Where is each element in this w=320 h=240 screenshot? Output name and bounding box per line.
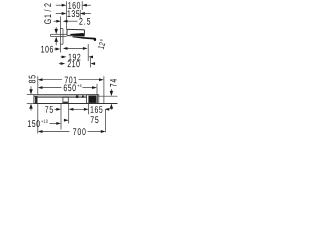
wire: ext line 650 right bbox=[96, 84, 98, 95]
wire: ext line 192 right bbox=[87, 53, 89, 62]
spout body outline bbox=[67, 29, 85, 36]
dim 701 bbox=[38, 76, 104, 83]
wire: bar bottom ext stub left bbox=[27, 103, 34, 105]
wire: extension line 135 right bbox=[79, 10, 81, 18]
pipe G1/2 bbox=[51, 34, 67, 36]
handle dark fill bbox=[88, 96, 96, 103]
label 12 deg bbox=[98, 39, 106, 49]
label G1/2 bbox=[44, 3, 51, 23]
arrow up toward pipe bbox=[54, 37, 58, 46]
dim 2.5 bbox=[54, 18, 91, 25]
wire: ext line left master lower bbox=[37, 104, 39, 134]
dim 106 bbox=[41, 46, 60, 53]
wire: vline wall ref bottom bbox=[60, 104, 62, 130]
dim 150+10 bbox=[28, 120, 61, 127]
wire: bar top ext stub left bbox=[27, 94, 34, 96]
dim line row under spout bbox=[63, 47, 88, 50]
wire: ext line 210 right bbox=[90, 58, 92, 68]
small control mark 2 bbox=[82, 95, 84, 97]
dim 650+4 bbox=[38, 84, 97, 91]
wire: plate front line bbox=[62, 29, 64, 45]
handle outline bbox=[87, 95, 98, 104]
wire: ext line x=88 under blade bbox=[87, 44, 89, 53]
dim 210 bbox=[59, 60, 95, 67]
dim 75 right label bbox=[91, 116, 99, 123]
bar front view outline bbox=[34, 95, 118, 104]
dim 700 bbox=[38, 128, 106, 135]
dim 85 vertical bbox=[29, 75, 36, 110]
wire: wall line bbox=[59, 17, 61, 53]
spout tip lip bbox=[94, 38, 97, 41]
wire: vline x=88.6 bbox=[88, 104, 90, 114]
dim 75 left and 165 row bbox=[45, 106, 109, 113]
wire: ext line 701 right / bar end bbox=[103, 76, 105, 96]
wire: vline x=105.5 bbox=[105, 110, 107, 133]
wire: extension line 160 right bbox=[81, 1, 83, 10]
spout front dark base bbox=[63, 102, 68, 104]
dim 135 bbox=[56, 10, 91, 17]
leader arrow G1/2 down bbox=[54, 27, 58, 34]
wire: vline x=68.7 bbox=[68, 104, 70, 124]
dim 74 vertical bbox=[110, 79, 117, 110]
spout front rect bbox=[63, 97, 68, 103]
spout wedge dark fill bbox=[69, 33, 84, 37]
arrow at x=68.6 row 120 bbox=[64, 119, 69, 122]
spout blade bbox=[73, 36, 95, 39]
wire: ext line left master upper bbox=[37, 76, 39, 94]
left end dark block bbox=[35, 96, 38, 103]
dim 160 bbox=[56, 2, 91, 9]
wire: plate bottom edge bbox=[60, 43, 63, 45]
dim 192 bbox=[61, 54, 93, 61]
small control mark 1 bbox=[76, 95, 79, 98]
bar top band shading bbox=[34, 95, 99, 97]
wire: plate top edge bbox=[60, 28, 63, 30]
wire: extension line body left bbox=[66, 1, 68, 29]
